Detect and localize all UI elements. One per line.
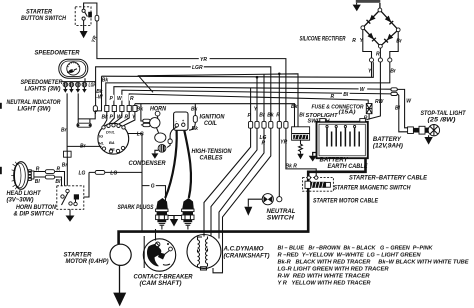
label YR vertical bbox=[90, 35, 98, 44]
svg-text:(CRANKSHAFT): (CRANKSHAFT) bbox=[224, 253, 270, 259]
svg-text:R-W RED WITH WHITE TRACER: R-W RED WITH WHITE TRACER bbox=[278, 273, 371, 279]
svg-text:STARTER MAGNETIC SWITCH: STARTER MAGNETIC SWITCH bbox=[334, 186, 412, 192]
battery bbox=[317, 119, 368, 159]
ground battery earth bbox=[309, 153, 317, 162]
svg-text:LG: LG bbox=[137, 131, 144, 137]
wire pill1 feed bbox=[250, 88, 252, 122]
wire Bl to stop-tail bbox=[397, 94, 407, 132]
svg-text:SWITCH: SWITCH bbox=[267, 215, 295, 221]
svg-text:Bl – BLUE Br –BROWN Bk – BL: Bl – BLUE Br –BROWN Bk – BLACK G – GREEN… bbox=[278, 245, 434, 251]
legend colour codes bbox=[278, 245, 470, 286]
wire Bl headlight bbox=[34, 177, 62, 186]
wire G bus bbox=[142, 186, 182, 216]
ground neutral switch bbox=[244, 199, 262, 216]
label CONDENSER bbox=[129, 161, 167, 167]
svg-text:(15A): (15A) bbox=[339, 109, 356, 115]
svg-text:(3V~30W): (3V~30W) bbox=[7, 197, 34, 203]
labels W Bl right bbox=[395, 98, 412, 111]
labels P W R above pills bbox=[109, 95, 135, 102]
labels LG R below pill bbox=[260, 135, 267, 147]
stop-tail light connectors bbox=[408, 126, 429, 134]
svg-text:R: R bbox=[262, 141, 266, 147]
labels Y Br RW bbox=[368, 68, 397, 105]
svg-text:DY/L: DY/L bbox=[106, 130, 115, 135]
connector pill W bbox=[391, 88, 397, 91]
ground arrows under lamps bbox=[63, 87, 87, 93]
wire Y drop to dynamo bbox=[211, 77, 257, 236]
wire Y bus bbox=[102, 62, 374, 77]
wire magnetic switch to cable bbox=[308, 172, 310, 176]
label SPEEDOMETER bbox=[35, 51, 81, 57]
svg-text:LGR: LGR bbox=[192, 65, 203, 71]
starter motor bbox=[110, 244, 131, 265]
svg-text:R: R bbox=[57, 167, 61, 173]
svg-text:LIGHTS (3W): LIGHTS (3W) bbox=[25, 86, 61, 92]
starter button switch S1 bbox=[75, 7, 92, 26]
svg-text:LG: LG bbox=[110, 170, 117, 176]
svg-text:STARTER: STARTER bbox=[26, 10, 53, 16]
label IGNITION COIL bbox=[200, 115, 226, 127]
label FUSE & CONNECTOR bbox=[312, 105, 364, 116]
connector pill condenser bbox=[168, 139, 172, 144]
label LGR bus bbox=[191, 63, 204, 70]
label YR neutral bbox=[280, 139, 287, 145]
svg-text:LG: LG bbox=[79, 170, 86, 176]
ignition coil bbox=[174, 112, 188, 130]
wire Bk-W drop bbox=[78, 76, 101, 119]
A.C. dynamo bbox=[187, 235, 221, 271]
labels Bl STOPLIGHT SWITCH bbox=[299, 112, 338, 124]
bus Bk coil-stoplight bbox=[135, 104, 295, 127]
svg-text:IGNITION: IGNITION bbox=[200, 115, 226, 121]
svg-text:Bk: Bk bbox=[192, 126, 199, 132]
wires bridge outputs bbox=[363, 30, 398, 58]
label Br bbox=[61, 128, 68, 134]
spark plug 2 bbox=[182, 198, 194, 230]
svg-text:EARTH CABLE: EARTH CABLE bbox=[328, 164, 369, 170]
wire Bk horn bbox=[141, 104, 143, 125]
svg-text:CABLES: CABLES bbox=[200, 155, 223, 161]
fuse 15A bbox=[366, 104, 372, 114]
wire coil feed bbox=[189, 104, 195, 131]
connector pill Bl bbox=[45, 175, 54, 179]
label HORN bbox=[150, 106, 167, 112]
label Br bus bbox=[80, 144, 87, 150]
wire Bk-R to magnetic switch bbox=[286, 128, 316, 176]
contact breaker bbox=[143, 229, 175, 271]
wire R headlight bbox=[34, 172, 65, 186]
edge artifact marks bbox=[0, 103, 2, 174]
label Br dip bbox=[62, 162, 69, 168]
label STARTER-BATTERY CABLE bbox=[349, 176, 428, 182]
svg-text:BATTERY: BATTERY bbox=[373, 137, 402, 143]
svg-text:Bl: Bl bbox=[299, 112, 305, 118]
ground stop-tail bbox=[424, 135, 432, 144]
svg-text:R: R bbox=[352, 38, 356, 44]
svg-text:Bl: Bl bbox=[343, 92, 349, 98]
speedometer gauge bbox=[59, 59, 88, 78]
label STARTER MOTOR bbox=[64, 253, 109, 265]
wire Y down bbox=[371, 62, 373, 77]
svg-text:MOTOR (0.4HP): MOTOR (0.4HP) bbox=[66, 259, 109, 265]
connector pill Bl2 bbox=[391, 92, 397, 95]
svg-text:BUTTON SWITCH: BUTTON SWITCH bbox=[21, 16, 67, 22]
head light bbox=[11, 162, 28, 190]
svg-text:Bk-R BLACK WITH RED TRACER: Bk-R BLACK WITH RED TRACER Bk–W BLACK WI… bbox=[278, 259, 470, 265]
svg-text:HORN BUTTON: HORN BUTTON bbox=[16, 205, 57, 211]
wire bus3 Bl bbox=[139, 74, 299, 127]
resistor neutral lamp bbox=[77, 119, 91, 127]
wire LG bus bbox=[84, 172, 142, 197]
label BATTERY 12V 9AH bbox=[373, 137, 403, 150]
connector neutral lamp bbox=[64, 151, 72, 157]
svg-text:BATTERY: BATTERY bbox=[320, 158, 349, 164]
label SPEEDOMETER LIGHTS bbox=[21, 80, 64, 92]
svg-text:Bl: Bl bbox=[35, 179, 41, 185]
svg-text:STARTER MOTOR CABLE: STARTER MOTOR CABLE bbox=[313, 198, 379, 204]
wire Br to dip switch bbox=[66, 157, 68, 186]
svg-text:R: R bbox=[331, 94, 335, 100]
wire starter switch feed bbox=[84, 3, 97, 15]
ground rectifier bbox=[353, 3, 361, 11]
wire condenser link bbox=[170, 127, 177, 139]
svg-text:SILICONE RECTIFIER: SILICONE RECTIFIER bbox=[300, 37, 346, 43]
connector head light bbox=[28, 170, 34, 181]
wire diagonal 4 to dynamo bottom bbox=[213, 128, 271, 273]
svg-text:CONTACT-BREAKER: CONTACT-BREAKER bbox=[134, 275, 194, 281]
svg-text:BA: BA bbox=[109, 140, 115, 145]
horn bbox=[143, 111, 166, 142]
ground dip switch bbox=[66, 209, 75, 222]
svg-text:Bk: Bk bbox=[191, 107, 198, 113]
connector pill LG bbox=[95, 171, 105, 175]
wire LG from switch bbox=[128, 134, 142, 232]
label R below fuse bbox=[364, 115, 368, 121]
stoplight switch plunger bbox=[297, 140, 303, 159]
node junction Y bus bbox=[256, 76, 259, 79]
svg-text:(CAM SHAFT): (CAM SHAFT) bbox=[140, 281, 182, 287]
wire diagonal 1 bbox=[204, 128, 251, 236]
svg-text:Bk R: Bk R bbox=[286, 163, 298, 169]
ground starter switch bbox=[80, 20, 88, 38]
bullet connectors rectifier bbox=[369, 58, 392, 62]
label G bbox=[151, 184, 155, 190]
svg-text:HL: HL bbox=[99, 141, 105, 146]
connector pill R bbox=[45, 170, 54, 174]
wire RW down bbox=[367, 62, 381, 120]
svg-text:STARTER–BATTERY CABLE: STARTER–BATTERY CABLE bbox=[349, 176, 428, 182]
label Bk stoplight bbox=[291, 104, 298, 110]
labels LG LG bbox=[79, 170, 118, 176]
labels Bl Bl bbox=[35, 179, 61, 185]
svg-text:SE: SE bbox=[110, 147, 116, 152]
bus Bl left bbox=[122, 90, 391, 105]
connector pills ignition feed bbox=[105, 106, 137, 112]
svg-text:NEUTRAL INDICATOR: NEUTRAL INDICATOR bbox=[7, 100, 62, 106]
label HIGH-TENSION CABLES bbox=[192, 149, 233, 161]
svg-text:HIGH-TENSION: HIGH-TENSION bbox=[192, 149, 233, 155]
starter magnetic switch bbox=[303, 176, 334, 191]
neutral switch bbox=[262, 194, 282, 205]
wire fuse to battery bbox=[368, 114, 370, 120]
label Bk top bbox=[102, 77, 109, 83]
svg-text:Bk: Bk bbox=[291, 104, 298, 110]
label BATTERY EARTH CABLE bbox=[320, 158, 369, 170]
svg-text:G: G bbox=[151, 184, 155, 190]
svg-text:LG-R LIGHT GREEN WITH RED TRAC: LG-R LIGHT GREEN WITH RED TRACER bbox=[278, 266, 390, 272]
wire YR to neutral switch bbox=[278, 74, 280, 197]
svg-text:YR: YR bbox=[200, 57, 207, 63]
connector pill coil bbox=[193, 116, 197, 123]
connector pill LGR drop bbox=[93, 84, 97, 114]
label STOP-TAIL LIGHT bbox=[421, 111, 467, 123]
label NEUTRAL SWITCH bbox=[267, 209, 296, 221]
svg-text:Y R YELLOW WITH RED TRACER: Y R YELLOW WITH RED TRACER bbox=[278, 280, 372, 286]
spark plug 1 bbox=[156, 198, 168, 230]
labels Bk P W R Y below pills bbox=[102, 114, 137, 120]
wire neutral indicator Br bbox=[67, 93, 101, 151]
wire YR bus bbox=[97, 21, 286, 121]
labels above middle pills bbox=[248, 106, 281, 119]
svg-text:A.C.DYNAMO: A.C.DYNAMO bbox=[222, 247, 263, 253]
label SILICONE RECTIFIER bbox=[300, 37, 346, 43]
wire P drop to dynamo bbox=[219, 74, 264, 239]
svg-text:Bl: Bl bbox=[395, 105, 401, 111]
svg-text:STARTER: STARTER bbox=[64, 253, 93, 259]
label YR bus bbox=[199, 56, 210, 63]
label LG switch bbox=[137, 131, 144, 137]
label STARTER BUTTON SWITCH bbox=[21, 10, 67, 22]
svg-text:CONDENSER: CONDENSER bbox=[129, 161, 167, 167]
label SPARK PLUGS bbox=[118, 205, 154, 211]
wire W to stop-tail bbox=[397, 89, 407, 127]
high-tension cable 2 bbox=[184, 131, 191, 199]
connector pill YR bbox=[95, 15, 99, 21]
svg-text:IG: IG bbox=[99, 134, 103, 139]
ground condenser bbox=[151, 150, 158, 159]
svg-text:YR: YR bbox=[280, 139, 287, 145]
bus Br-Bk left bbox=[106, 62, 390, 105]
svg-text:SPEEDOMETER: SPEEDOMETER bbox=[21, 80, 64, 86]
svg-text:Bk: Bk bbox=[137, 107, 144, 113]
silicone rectifier bar bbox=[356, 0, 381, 3]
node junction bus3 bbox=[278, 73, 281, 76]
svg-text:NEUTRAL: NEUTRAL bbox=[267, 209, 296, 215]
svg-text:Bl: Bl bbox=[55, 179, 61, 185]
svg-text:SPARK PLUGS: SPARK PLUGS bbox=[118, 205, 154, 211]
label Bk-W bbox=[96, 89, 104, 100]
bus W left bbox=[114, 87, 391, 106]
bus R to fuse bbox=[129, 94, 368, 106]
label STARTER MOTOR CABLE bbox=[313, 198, 379, 204]
svg-text:RW: RW bbox=[375, 99, 385, 105]
svg-text:& DIP SWITCH: & DIP SWITCH bbox=[14, 211, 55, 217]
svg-text:R –RED Y–YELLOW W–WHITE LG: R –RED Y–YELLOW W–WHITE LG – LIGHT GREEN bbox=[278, 252, 422, 258]
connector pills middle row bbox=[249, 121, 289, 128]
wire LGR bus bbox=[96, 67, 271, 122]
ignition switch U1 bbox=[98, 123, 129, 154]
label HORN BUTTON & DIP SWITCH bbox=[14, 205, 57, 217]
wire speedometer to lamp bus bbox=[62, 78, 96, 81]
label CONTACT-BREAKER bbox=[134, 275, 194, 288]
labels R R bbox=[36, 167, 61, 173]
label A.C.DYNAMO bbox=[222, 247, 269, 260]
wire starter motor lead arrow bbox=[113, 265, 126, 306]
svg-text:R: R bbox=[130, 96, 134, 102]
high-tension cable 1 bbox=[165, 131, 177, 199]
label HEAD LIGHT bbox=[7, 191, 42, 203]
label R bottom bbox=[376, 52, 380, 58]
svg-text:R: R bbox=[36, 167, 40, 173]
label LGR left bbox=[89, 83, 97, 89]
svg-text:SPEEDOMETER: SPEEDOMETER bbox=[35, 51, 81, 57]
speedometer lights (3W) lamps bbox=[63, 82, 87, 87]
stoplight switch bbox=[292, 127, 310, 140]
condenser bbox=[158, 144, 170, 153]
svg-text:(25 /8W): (25 /8W) bbox=[428, 117, 456, 123]
stop-tail lamp bbox=[428, 125, 439, 136]
svg-text:Bk: Bk bbox=[267, 112, 274, 118]
label W bus bbox=[359, 86, 368, 93]
svg-text:LIGHT (3W): LIGHT (3W) bbox=[18, 106, 51, 112]
silicone rectifier bridge bbox=[361, 3, 400, 48]
label NEUTRAL INDICATOR LIGHT bbox=[7, 100, 62, 112]
labels Bk coil bbox=[191, 107, 198, 132]
svg-text:COIL: COIL bbox=[204, 121, 217, 127]
label R fuse bus bbox=[331, 94, 335, 100]
label Bl bus bbox=[342, 91, 350, 98]
ground between spark plugs bbox=[170, 216, 178, 227]
svg-text:STOP-TAIL LIGHT: STOP-TAIL LIGHT bbox=[421, 111, 467, 117]
svg-text:(12V,9AH): (12V,9AH) bbox=[373, 144, 403, 150]
starter motor cable thick bbox=[119, 158, 366, 244]
svg-text:HEAD LIGHT: HEAD LIGHT bbox=[7, 191, 42, 197]
label Bk R bbox=[286, 163, 298, 169]
wires pills to ignition switch bbox=[104, 112, 135, 126]
label STARTER MAGNETIC SWITCH bbox=[334, 186, 412, 192]
dip switch dashed box bbox=[57, 186, 84, 210]
label Bk horn bbox=[137, 107, 144, 113]
svg-text:R: R bbox=[376, 52, 380, 58]
labels R Y Br under bridge bbox=[352, 38, 403, 45]
